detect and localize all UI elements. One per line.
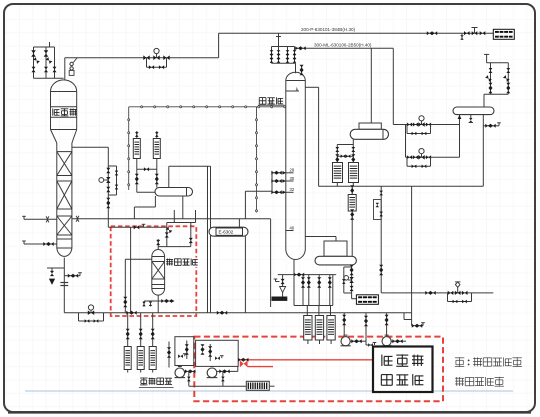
svg-text:300-ML-630106-2B50(H.40): 300-ML-630106-2B50(H.40) (314, 42, 372, 47)
svg-text:30: 30 (290, 176, 295, 181)
svg-text:32: 32 (290, 187, 295, 192)
svg-text:28: 28 (290, 168, 295, 173)
svg-text:40: 40 (290, 225, 295, 230)
svg-text:E-6302: E-6302 (219, 230, 234, 235)
svg-text:200-P-630101-384B(H.30): 200-P-630101-384B(H.30) (301, 27, 356, 32)
